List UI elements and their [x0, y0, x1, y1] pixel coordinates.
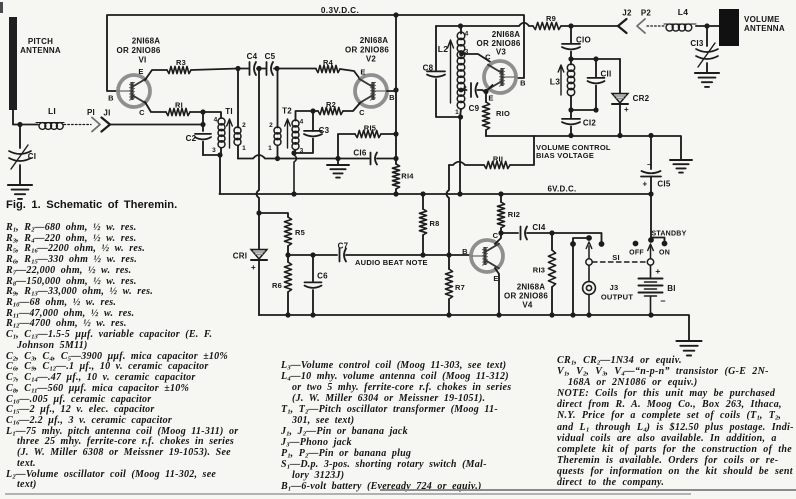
svg-text:C3: C3 — [319, 126, 330, 135]
transformer T2 secondary coil — [292, 120, 299, 150]
wire L1 to P1 dotted — [64, 124, 91, 126]
wire L2 pin2 to C9 — [463, 89, 467, 91]
svg-text:V4: V4 — [522, 301, 533, 310]
svg-text:C: C — [493, 231, 499, 240]
svg-text:RI3: RI3 — [533, 266, 545, 275]
svg-text:2NI68A: 2NI68A — [132, 37, 161, 46]
wire V2 collector to R2 — [343, 103, 360, 111]
wire R1 node down to C2 — [202, 112, 204, 131]
wire P2 to L4 dotted — [647, 25, 665, 27]
node L2 top — [458, 23, 463, 28]
svg-text:RI: RI — [175, 101, 183, 110]
node R7 top — [446, 252, 451, 257]
label J3 output — [601, 283, 634, 302]
node S1 bracket top — [586, 235, 592, 241]
wire C16 to V2 base column — [377, 158, 396, 160]
svg-text:−: − — [647, 162, 651, 169]
svg-text:R4: R4 — [323, 58, 334, 67]
node C11 top — [593, 56, 598, 61]
node OFF contact — [633, 241, 639, 247]
node top rail / V2 base column — [393, 12, 398, 17]
svg-text:B: B — [462, 247, 468, 256]
diode CR2 — [612, 59, 650, 135]
wire ground bus — [259, 315, 689, 340]
resistor R4 — [316, 58, 340, 73]
node L2 pin3 tap — [459, 52, 464, 57]
node C10 top — [568, 23, 573, 28]
transistor V3 — [484, 61, 516, 93]
svg-text:1: 1 — [268, 145, 272, 152]
svg-text:2NI68A: 2NI68A — [517, 283, 546, 292]
wire R12 node to C14 — [501, 232, 518, 234]
svg-text:RI5: RI5 — [364, 124, 376, 133]
wire V3 emitter junction — [486, 85, 493, 92]
svg-text:P2: P2 — [641, 9, 652, 18]
wire R14 to 6V rail — [395, 189, 397, 194]
resistor R14 — [392, 164, 414, 189]
transistor V2 — [355, 75, 387, 107]
node L3 bottom — [568, 107, 573, 112]
svg-text:1: 1 — [455, 109, 459, 116]
svg-text:2: 2 — [463, 86, 467, 93]
svg-text:B: B — [520, 79, 526, 88]
capacitor C3 — [304, 126, 330, 136]
svg-text:C2: C2 — [186, 134, 197, 143]
node C16 right — [393, 156, 398, 161]
wire oscillator top bus — [436, 23, 533, 26]
terminal labels V3 — [485, 53, 526, 103]
node T2 primary pin1 on bus — [275, 156, 280, 161]
wire V2 base — [387, 90, 396, 92]
svg-text:4: 4 — [214, 117, 218, 124]
capacitor C4 — [247, 52, 258, 75]
svg-text:0.3V.D.C.: 0.3V.D.C. — [321, 6, 359, 15]
node L2 pin2 tap — [459, 88, 464, 93]
wire C5 to R4 — [274, 68, 316, 70]
wire S1 left contact down — [572, 244, 574, 315]
node R5/CR1 junction — [256, 210, 261, 215]
wire C14 line to right contact — [552, 233, 602, 242]
svg-text:+: + — [624, 105, 629, 114]
node L2 bottom — [458, 114, 463, 119]
svg-text:C: C — [485, 53, 491, 62]
svg-text:VOLUME: VOLUME — [744, 15, 780, 24]
node R15 right — [393, 131, 398, 136]
capacitor C5 — [265, 52, 276, 75]
svg-text:R5: R5 — [295, 228, 305, 237]
svg-text:2NI68A: 2NI68A — [360, 36, 389, 45]
pin labels T1 — [212, 117, 246, 155]
svg-text:−: − — [660, 296, 666, 306]
node R13 top — [549, 230, 554, 235]
node C5/T2 column — [274, 66, 279, 71]
svg-text:C9: C9 — [469, 104, 480, 113]
label V3 type — [476, 30, 520, 57]
wire R4 to V2 emitter — [340, 69, 360, 79]
resistor R3 — [167, 58, 191, 74]
transformer T2 arrow — [285, 119, 291, 148]
wire V1 emitter to R3 — [145, 70, 167, 80]
svg-text:E: E — [138, 67, 143, 76]
svg-text:OR 2NIO86: OR 2NIO86 — [345, 46, 389, 55]
node ground/R15 junction — [335, 156, 340, 161]
diode CR1 — [233, 213, 267, 315]
wire C15 to standby contact — [650, 194, 652, 240]
wire S1 contact bracket — [573, 238, 589, 242]
svg-text:JI: JI — [103, 109, 110, 118]
svg-text:CI5: CI5 — [657, 180, 671, 189]
svg-text:2NI68A: 2NI68A — [492, 30, 521, 39]
svg-text:ANTENNA: ANTENNA — [20, 46, 61, 55]
resistor R7 — [445, 255, 465, 315]
svg-text:PI: PI — [87, 108, 95, 117]
resistor R13 — [533, 233, 556, 315]
bias bus nodes — [568, 133, 573, 138]
svg-text:3: 3 — [212, 147, 216, 154]
svg-text:ANTENNA: ANTENNA — [744, 24, 785, 33]
resistor R10 — [482, 92, 510, 136]
parts list right column — [557, 355, 794, 488]
ground at bias bus — [670, 159, 692, 161]
pin labels L2 — [455, 31, 469, 117]
transformer T2 primary coil — [274, 127, 281, 145]
node C4/C5 junction — [256, 66, 261, 71]
svg-text:PITCH: PITCH — [28, 37, 53, 46]
svg-text:C4: C4 — [247, 52, 258, 61]
wire V4 collector up — [495, 233, 501, 244]
node C4 bus left — [235, 66, 240, 71]
wire R15 left elbow — [338, 134, 355, 159]
resistor R1 — [166, 101, 190, 116]
label volume antenna — [744, 15, 785, 33]
wire C2 to T1 bracket — [202, 142, 204, 156]
svg-text:R9: R9 — [546, 14, 556, 23]
node T1 pin3 junction — [217, 152, 222, 157]
node S1 right contact — [599, 241, 605, 247]
svg-text:TI: TI — [225, 107, 233, 116]
label V1 type — [116, 37, 160, 65]
wire C14 to R13 node — [527, 232, 552, 234]
wire L2 pin3 to V3 collector — [462, 54, 492, 63]
wire C4-C5 — [257, 68, 266, 70]
svg-text:C8: C8 — [423, 64, 434, 73]
node J1 line at T1 — [200, 122, 205, 127]
svg-text:R8: R8 — [429, 219, 439, 228]
pin labels T2 — [268, 119, 304, 155]
transistor V1 — [118, 75, 150, 107]
wire T1 pin3 to 6V rail — [219, 155, 221, 194]
inductor L3 arrow — [558, 65, 564, 95]
label volume control bias voltage — [536, 143, 611, 160]
transistor V4 — [471, 240, 503, 272]
node C6 top — [310, 252, 315, 257]
label B1 — [655, 266, 675, 306]
svg-text:RII: RII — [493, 155, 503, 164]
svg-text:6V.D.C.: 6V.D.C. — [547, 185, 576, 194]
wire T2 secondary top bracket — [296, 111, 314, 121]
capacitor C3 lead — [312, 111, 314, 131]
svg-text:RI4: RI4 — [401, 172, 414, 181]
wire C9 to V3 emitter — [478, 90, 487, 92]
svg-text:4: 4 — [300, 119, 304, 126]
svg-text:L2: L2 — [438, 44, 448, 54]
capacitor C9 — [469, 83, 480, 113]
transformer T1 primary coil — [218, 118, 225, 148]
svg-text:CIO: CIO — [576, 36, 591, 45]
node R8 bottom — [420, 252, 425, 257]
node standby center contact — [648, 237, 654, 243]
wire R15 right — [381, 133, 396, 135]
terminal labels V1 — [108, 67, 145, 117]
jack J1 — [102, 118, 111, 132]
label V4 type — [504, 283, 548, 310]
figure caption — [6, 199, 177, 211]
inductor L2 coil — [457, 26, 465, 117]
svg-text:+: + — [655, 266, 660, 276]
variable capacitor C13 — [690, 26, 718, 72]
ground at C16 bus — [327, 159, 349, 178]
svg-text:OR 2NIO86: OR 2NIO86 — [504, 292, 548, 301]
svg-text:E: E — [488, 94, 493, 103]
wire L2 bottom to 6V rail — [459, 117, 461, 194]
wire V2 base column — [395, 15, 397, 164]
wire C4-C5 junction down to R5 node — [257, 69, 260, 214]
svg-text:R3: R3 — [176, 58, 186, 67]
pitch antenna — [9, 17, 17, 110]
svg-text:L4: L4 — [678, 7, 688, 17]
wire into C4 — [238, 68, 249, 70]
svg-text:SI: SI — [612, 253, 620, 262]
terminal labels V2 — [359, 68, 395, 118]
svg-text:CI2: CI2 — [583, 119, 597, 128]
capacitor C6 — [305, 255, 329, 315]
svg-text:C: C — [139, 108, 145, 117]
wire 0.3V rail (V1 base to V3 base) — [107, 15, 524, 91]
svg-text:T2: T2 — [282, 107, 292, 116]
variable capacitor C1 — [9, 125, 36, 185]
wire R11 left with hump — [449, 162, 484, 165]
plug P2 — [637, 19, 645, 33]
svg-text:J3: J3 — [610, 283, 619, 292]
wire V1 collector to R1 — [145, 102, 166, 112]
node S1 left contact — [570, 241, 576, 247]
wire 6V.D.C. rail — [220, 193, 652, 195]
wire C11 bottom bus — [571, 109, 596, 111]
node T2 pin3 junction — [291, 150, 296, 155]
svg-text:E: E — [360, 68, 365, 77]
svg-text:STANDBY: STANDBY — [651, 231, 686, 238]
wire L4 to antenna — [696, 25, 719, 27]
wire C11/CR2 top bus — [571, 58, 620, 60]
svg-text:E: E — [493, 274, 498, 283]
capacitor C7 — [338, 242, 349, 262]
resistor R12 — [497, 194, 520, 233]
svg-text:RIO: RIO — [496, 109, 510, 118]
svg-text:C7: C7 — [338, 242, 349, 251]
wire T2 pin3 to 6V rail with crossover hump — [294, 153, 297, 194]
svg-text:AUDIO BEAT NOTE: AUDIO BEAT NOTE — [355, 258, 428, 267]
wire audio beat note bus — [346, 254, 471, 256]
svg-text:OFF: OFF — [629, 250, 644, 257]
capacitor C14 — [521, 223, 546, 240]
wire T2 primary bottom to bus — [277, 145, 279, 158]
wire R2 to C3 node — [313, 110, 318, 112]
svg-text:CI4: CI4 — [532, 223, 546, 232]
inductor L4 — [664, 24, 696, 31]
wire R11 to V4 base column — [447, 165, 450, 255]
capacitor C11 — [588, 59, 612, 110]
resistor R8 — [419, 194, 439, 255]
ground at C13 — [695, 72, 719, 74]
svg-text:CII: CII — [601, 70, 612, 79]
wire volume control bias bus — [486, 136, 681, 159]
wire C3 to T2 pin3 — [294, 139, 313, 154]
node R2/C3/T2 — [310, 108, 315, 113]
svg-text:CI3: CI3 — [690, 39, 704, 48]
wire R9 to J2 — [561, 25, 618, 27]
wire T1 secondary top to C4 node — [237, 69, 239, 128]
node V3 emitter junction — [483, 89, 488, 94]
wire antenna to L1 — [13, 110, 38, 125]
node ON contact — [662, 241, 668, 247]
ground at battery bus — [676, 340, 701, 342]
switch S1 pole left — [586, 242, 592, 265]
svg-text:C: C — [359, 108, 365, 117]
wire T1 secondary bottom to bus — [237, 145, 239, 158]
label standby/on/off — [629, 231, 686, 257]
node V2 base — [393, 87, 398, 92]
jack J2 — [618, 19, 627, 33]
wire T2 secondary bottom — [294, 150, 296, 153]
node C13 tap — [704, 23, 709, 28]
label V2 type — [345, 36, 389, 64]
terminal labels V4 — [462, 231, 499, 283]
resistor R5 — [284, 217, 305, 255]
transformer T1 secondary coil — [234, 127, 241, 145]
volume antenna — [719, 9, 739, 46]
svg-text:V3: V3 — [496, 48, 507, 57]
switch S1 pole right — [647, 244, 653, 265]
svg-text:CI: CI — [28, 152, 37, 161]
capacitor C15 — [641, 136, 671, 195]
wire R3 to C4 bus — [191, 69, 238, 71]
node C11 bottom — [593, 107, 598, 112]
transformer T1 arrow — [227, 119, 233, 148]
svg-text:RI2: RI2 — [508, 210, 520, 219]
svg-text:+: + — [643, 180, 648, 189]
capacitor C12 — [562, 110, 596, 135]
svg-text:J2: J2 — [622, 9, 632, 18]
capacitor C10 — [562, 26, 591, 59]
node V4 collector / R12 — [498, 230, 503, 235]
svg-text:OR 2NIO86: OR 2NIO86 — [116, 46, 160, 55]
svg-text:BI: BI — [667, 284, 676, 293]
node R1/T1 — [200, 109, 205, 114]
svg-text:CI6: CI6 — [353, 149, 367, 158]
bottom page rule — [380, 489, 796, 492]
plug P1 — [92, 118, 100, 132]
label pitch antenna — [20, 37, 61, 55]
svg-text:R6: R6 — [272, 281, 282, 290]
wire R11 right riser — [510, 136, 534, 165]
svg-text:ON: ON — [659, 250, 670, 257]
ground bus nodes — [285, 312, 290, 317]
svg-text:R2: R2 — [326, 100, 336, 109]
inductor L1 — [36, 123, 64, 130]
svg-text:LI: LI — [48, 106, 56, 116]
svg-text:CR2: CR2 — [633, 94, 650, 103]
capacitor C8 branch — [423, 26, 460, 117]
svg-text:BIAS VOLTAGE: BIAS VOLTAGE — [536, 151, 594, 160]
resistor R9 — [533, 14, 561, 30]
svg-text:B: B — [108, 94, 114, 103]
svg-text:VI: VI — [138, 56, 146, 65]
inductor L3 coil — [567, 59, 574, 110]
resistor R15 — [355, 124, 381, 138]
jack J3 — [583, 265, 596, 315]
ground at C1 — [8, 184, 32, 186]
svg-text:OUTPUT: OUTPUT — [601, 293, 634, 302]
wire V4 emitter down — [495, 268, 499, 315]
switch S1 dashed link — [593, 261, 647, 263]
node C1 tap — [17, 122, 22, 127]
svg-text:C5: C5 — [265, 52, 276, 61]
capacitor C2 — [186, 134, 211, 143]
parts list left column — [6, 223, 238, 491]
svg-text:+: + — [251, 263, 256, 272]
rail junction nodes — [291, 191, 296, 196]
wire ON branch — [651, 238, 665, 242]
resistor R2 — [318, 100, 343, 115]
parts list middle column — [281, 360, 511, 493]
wire T2 primary top to C5 node — [277, 69, 279, 128]
wire R1 to T1 — [190, 111, 203, 113]
wire J1 to T1 — [110, 124, 203, 126]
node L3 top — [568, 56, 573, 61]
svg-text:L3: L3 — [550, 77, 560, 87]
battery B1 — [639, 265, 663, 315]
svg-text:B: B — [389, 93, 395, 102]
svg-text:1: 1 — [242, 145, 246, 152]
wire audio node bus — [288, 254, 337, 256]
svg-text:2: 2 — [242, 122, 246, 129]
resistor R11 — [484, 155, 510, 169]
resistor R6 — [272, 255, 292, 315]
svg-text:R7: R7 — [455, 283, 465, 292]
wire T1 top bracket — [203, 112, 221, 118]
node R5/R6/C7 — [285, 252, 290, 257]
wire R5 top elbow — [259, 213, 288, 217]
inductor L2 arrow — [448, 40, 454, 103]
svg-text:C6: C6 — [317, 272, 328, 281]
svg-text:V2: V2 — [366, 55, 377, 64]
svg-text:4: 4 — [465, 31, 469, 38]
capacitor C16 — [353, 149, 377, 165]
wire secondary bus — [238, 155, 369, 159]
svg-text:2: 2 — [269, 122, 273, 129]
wire T1 bottom bracket — [203, 148, 221, 155]
